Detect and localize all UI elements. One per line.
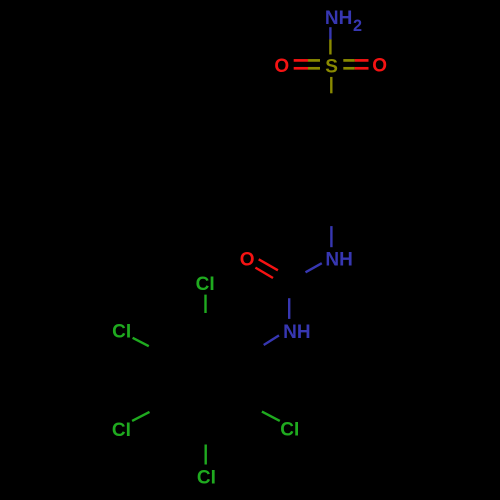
svg-text:CI: CI bbox=[196, 274, 215, 295]
svg-text:NH: NH bbox=[283, 322, 310, 343]
svg-text:S: S bbox=[325, 56, 338, 77]
svg-text:CI: CI bbox=[197, 467, 216, 488]
svg-text:NH: NH bbox=[325, 8, 352, 29]
svg-text:O: O bbox=[372, 56, 387, 77]
svg-text:NH: NH bbox=[325, 249, 352, 270]
svg-text:CI: CI bbox=[112, 420, 131, 441]
svg-text:2: 2 bbox=[353, 17, 362, 35]
svg-text:CI: CI bbox=[112, 321, 131, 342]
svg-text:O: O bbox=[240, 250, 255, 271]
svg-text:O: O bbox=[274, 56, 289, 77]
svg-text:CI: CI bbox=[280, 420, 299, 441]
